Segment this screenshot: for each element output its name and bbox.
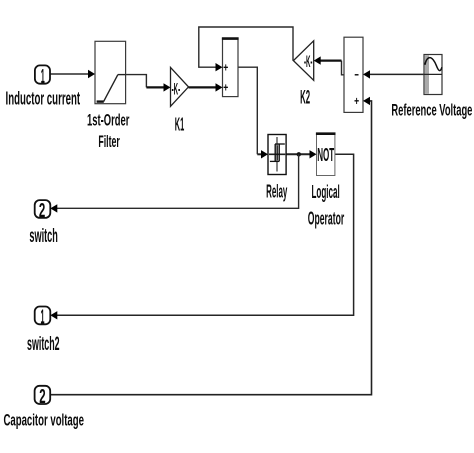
- wire: inport1 to filter: [50, 73, 90, 75]
- arrowhead into K2 input: [314, 56, 321, 64]
- svg-text:+: +: [354, 94, 359, 108]
- wire: NOT output right, down, left to switch2 outport: [57, 154, 354, 315]
- arrowhead into sum1 input1: [216, 63, 223, 71]
- arrowhead into sum2 plus input: [363, 97, 370, 105]
- svg-text:1: 1: [41, 306, 45, 328]
- junction dot: [297, 152, 301, 156]
- wire: K2 output up and across to sum1 input1: [199, 27, 293, 67]
- svg-text:Filter: Filter: [98, 133, 120, 151]
- sum block U1: [222, 38, 239, 97]
- svg-text:+: +: [223, 81, 228, 95]
- svg-text:Inductor current: Inductor current: [6, 88, 81, 108]
- wire: reference voltage to sum2 minus input: [368, 73, 424, 75]
- wire: K1 output to sum1 input2 (bold): [189, 86, 218, 88]
- arrowhead into filter: [88, 70, 95, 78]
- svg-text:1: 1: [41, 66, 45, 88]
- svg-text:2: 2: [39, 200, 45, 222]
- svg-text:K1: K1: [175, 113, 185, 134]
- svg-text:Operator: Operator: [308, 208, 344, 228]
- arrowhead into switch2 outport: [50, 311, 57, 319]
- svg-text:switch2: switch2: [27, 334, 60, 355]
- arrowhead into switch outport: [50, 204, 57, 212]
- gain K1: [171, 67, 189, 106]
- wire: sum2 output jog up to K2 input (bold): [342, 61, 345, 75]
- svg-text:switch: switch: [29, 226, 58, 247]
- svg-text:2: 2: [39, 386, 45, 408]
- sum block U2 (flipped): [344, 37, 363, 112]
- wire: sum1 output down to relay: [238, 67, 257, 154]
- svg-text:Relay: Relay: [266, 180, 288, 201]
- Reference Voltage source block: [424, 55, 442, 95]
- svg-text:-K-: -K-: [304, 52, 313, 71]
- svg-text:Logical: Logical: [311, 182, 339, 202]
- wire: relay to NOT with junction: [286, 153, 312, 155]
- svg-text:Reference Voltage: Reference Voltage: [391, 102, 472, 120]
- 1st-Order Filter block: [95, 41, 126, 103]
- wire: junction branch down and left to switch outport: [57, 154, 299, 208]
- outport 2 switch: [35, 200, 51, 222]
- svg-text:K2: K2: [300, 86, 310, 108]
- Relay block: [268, 135, 286, 175]
- inport 1 Inductor current: [35, 65, 50, 88]
- wire: filter output jog to K1: [125, 75, 146, 88]
- svg-text:1st-Order: 1st-Order: [87, 112, 130, 130]
- arrowhead into relay: [261, 150, 268, 158]
- svg-text:Capacitor voltage: Capacitor voltage: [3, 410, 84, 429]
- outport 1 switch2: [35, 306, 51, 328]
- svg-text:-: -: [354, 67, 359, 81]
- gain K2 (flipped): [293, 41, 313, 81]
- arrowhead into sum2 minus input: [363, 70, 370, 78]
- arrowhead into NOT: [310, 150, 317, 158]
- arrowhead into sum1 input2: [216, 83, 223, 91]
- svg-text:NOT: NOT: [317, 144, 334, 165]
- svg-text:-K-: -K-: [172, 79, 181, 98]
- wire: capacitor voltage inport right, up to sum2 plus input: [50, 101, 371, 395]
- NOT Logical Operator block: [316, 133, 336, 176]
- inport 2 Capacitor voltage: [35, 386, 51, 408]
- svg-text:+: +: [223, 61, 228, 75]
- arrowhead into K1: [164, 83, 171, 91]
